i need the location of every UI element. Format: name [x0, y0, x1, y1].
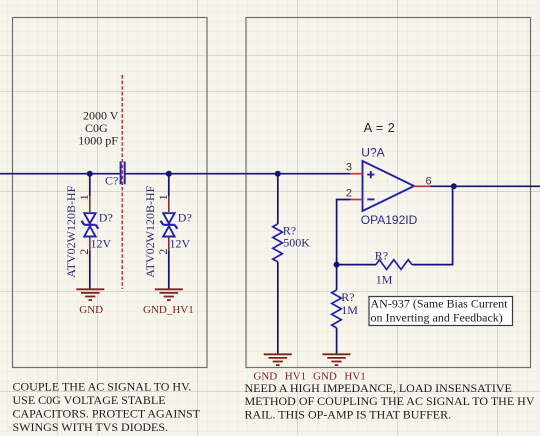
- op-amp minus input marking: [367, 198, 374, 200]
- wire: drop to diode D? #1: [89, 174, 91, 196]
- svg-text:1: 1: [77, 194, 91, 200]
- svg-text:on Inverting and Feedback): on Inverting and Feedback): [371, 311, 503, 325]
- svg-text:1M: 1M: [341, 303, 358, 317]
- op-amp U?A triangle: [363, 161, 415, 211]
- svg-text:GND_HV1: GND_HV1: [143, 304, 194, 316]
- resistor R? 1M (feedback) zigzag: [376, 260, 412, 270]
- wire: down to resistor R? 500K: [277, 174, 279, 224]
- node: feedback junction: [334, 262, 340, 268]
- svg-text:12V: 12V: [170, 236, 191, 250]
- svg-text:12V: 12V: [91, 236, 112, 250]
- diode D2 pin 2 (maroon pin): [168, 237, 170, 252]
- wire: diode D2 to ground: [168, 251, 170, 290]
- svg-text:2: 2: [156, 249, 170, 255]
- wire: drop to diode D? #2: [168, 174, 170, 196]
- wire: main line from capacitor to op-amp pin 3: [126, 173, 351, 175]
- ground GND (left): [76, 289, 104, 300]
- op-amp plus input marking: [367, 171, 374, 178]
- node: output junction: [451, 183, 457, 189]
- svg-text:USE C0G VOLTAGE STABLE: USE C0G VOLTAGE STABLE: [13, 393, 166, 407]
- svg-text:D?: D?: [178, 210, 192, 224]
- svg-text:ATV02W120B-HF: ATV02W120B-HF: [64, 185, 78, 277]
- wire: diode D1 to ground: [89, 251, 91, 290]
- wire: R2 to output: [412, 186, 453, 264]
- svg-text:METHOD OF COUPLING THE AC SIGN: METHOD OF COUPLING THE AC SIGNAL TO THE …: [245, 394, 535, 408]
- svg-text:2: 2: [77, 249, 91, 255]
- left schematic box: [13, 18, 208, 368]
- diode D1 pin 2 (maroon pin): [89, 237, 91, 252]
- svg-text:D?: D?: [99, 210, 113, 224]
- svg-text:ATV02W120B-HF: ATV02W120B-HF: [143, 185, 157, 277]
- node: junction feeding R? 500K: [275, 171, 281, 177]
- svg-text:SWINGS WITH TVS DIODES.: SWINGS WITH TVS DIODES.: [13, 420, 169, 434]
- wire: resistor R1 to ground: [277, 262, 279, 355]
- svg-text:CAPACITORS. PROTECT AGAINST: CAPACITORS. PROTECT AGAINST: [13, 407, 201, 421]
- wire: feedback node down to R? 1M (vertical): [336, 265, 338, 290]
- svg-text:C?: C?: [105, 173, 118, 187]
- node: junction at D? #1 on main wire: [87, 171, 93, 177]
- resistor R? 500K zigzag: [273, 224, 283, 262]
- ground below R? 1M: [323, 354, 351, 365]
- wire: main AC input (left of capacitor C?): [0, 173, 120, 175]
- svg-text:2: 2: [346, 187, 352, 199]
- diode D1 pin 1 (maroon pin): [89, 196, 91, 212]
- svg-text:NEED A HIGH IMPEDANCE, LOAD IN: NEED A HIGH IMPEDANCE, LOAD INSENSATIVE: [245, 381, 512, 395]
- svg-text:OPA192ID: OPA192ID: [361, 213, 418, 227]
- red dashed separator line: [121, 75, 123, 289]
- TVS diode D? #1 symbol: [82, 213, 99, 236]
- svg-text:3: 3: [346, 161, 352, 173]
- TVS diode D? #2 symbol: [161, 213, 178, 236]
- resistor R? 1M (to ground) zigzag: [332, 290, 342, 328]
- svg-text:RAIL. THIS OP-AMP IS THAT BUFF: RAIL. THIS OP-AMP IS THAT BUFFER.: [245, 407, 452, 421]
- svg-text:A = 2: A = 2: [364, 121, 396, 135]
- svg-text:U?A: U?A: [361, 146, 384, 160]
- right schematic box: [246, 18, 531, 368]
- wire: output to right edge: [430, 185, 540, 187]
- svg-text:COUPLE THE AC SIGNAL TO HV.: COUPLE THE AC SIGNAL TO HV.: [13, 380, 192, 394]
- wire: feedback node to R? 1M (horizontal): [337, 264, 376, 266]
- wire: R3 to ground: [336, 328, 338, 355]
- left comment paragraph: [13, 380, 201, 435]
- op-amp pin 2 red stub: [351, 199, 363, 201]
- ground below R? 500K: [264, 354, 292, 365]
- svg-text:AN-937 (Same Bias Current: AN-937 (Same Bias Current: [371, 297, 509, 311]
- ground GND_HV1 (left): [155, 289, 183, 300]
- capacitor C? plates: [121, 162, 125, 185]
- svg-text:GND: GND: [79, 304, 103, 316]
- op-amp pin 3 red stub: [351, 173, 363, 175]
- svg-text:500K: 500K: [283, 236, 310, 250]
- op-amp pin 6 red stub: [414, 185, 430, 187]
- svg-text:1M: 1M: [376, 272, 393, 286]
- note box AN-937: [369, 297, 513, 326]
- diode D2 pin 1 (maroon pin): [168, 196, 170, 212]
- right comment paragraph: [245, 381, 535, 422]
- svg-text:R?: R?: [375, 249, 388, 263]
- node: junction at D? #2 on main wire: [166, 171, 172, 177]
- svg-text:1: 1: [156, 194, 170, 200]
- wire: inverting input over to feedback node: [337, 200, 351, 265]
- svg-text:1000 pF: 1000 pF: [78, 133, 118, 147]
